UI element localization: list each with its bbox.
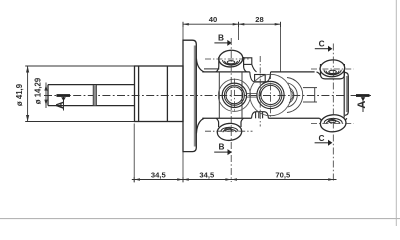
- right end boss: [344, 71, 348, 118]
- port B top: mouth ellipse: [218, 49, 243, 67]
- neck curve top (flange to body): [196, 59, 204, 72]
- svg-text:B: B: [218, 32, 224, 42]
- port C bottom: inner arcs: [324, 118, 342, 123]
- port B boss column through body: [219, 72, 242, 118]
- port B bottom: collar: [216, 118, 243, 127]
- port B bottom: inner arcs: [221, 127, 238, 132]
- top plug boss: [250, 72, 271, 82]
- top ports horizontal centerline B: [205, 58, 250, 60]
- port B top: inner arcs: [223, 60, 240, 65]
- svg-text:B: B: [219, 141, 225, 151]
- svg-text:34,5: 34,5: [199, 170, 215, 179]
- port B top: collar: [216, 57, 246, 72]
- barrel (cylinder body): [135, 66, 184, 122]
- bottom plug boss: [252, 112, 269, 119]
- svg-text:70,5: 70,5: [275, 170, 291, 179]
- label B bottom: [214, 141, 232, 155]
- bore end dome arcs: [287, 78, 303, 113]
- port B vertical centerline: [230, 38, 232, 182]
- reservoir deck step: [244, 58, 257, 72]
- top dimension line: [183, 22, 281, 27]
- port C bottom: collar: [319, 118, 347, 121]
- body top edge: [202, 71, 314, 73]
- diameter 41,9 dimension: [25, 66, 134, 122]
- left bore circles: [218, 79, 250, 111]
- mounting flange: [183, 40, 196, 151]
- bottom dimension line: [132, 177, 337, 182]
- svg-text:ø 41,9: ø 41,9: [15, 83, 24, 106]
- main horizontal centerline: [44, 95, 371, 97]
- right bore vertical centerline: [270, 73, 272, 118]
- port B bottom: mouth ellipse: [217, 123, 243, 142]
- top ports horizontal centerline C: [311, 68, 354, 70]
- section marker A right: [356, 96, 370, 113]
- label C top: [315, 39, 333, 52]
- right bore circles: [250, 74, 291, 115]
- port C top: inner arcs: [324, 70, 341, 75]
- label C bottom: [315, 133, 333, 146]
- passage between bores: [247, 93, 257, 97]
- svg-text:C: C: [319, 133, 325, 143]
- port C vertical centerline: [332, 44, 334, 183]
- section marker A left: [54, 96, 70, 111]
- plug vertical centerline: [259, 56, 261, 127]
- port C bottom: mouth ellipse: [320, 114, 347, 133]
- port C top: mouth ellipse: [320, 59, 346, 77]
- bottom page border: [0, 218, 400, 220]
- svg-text:ø 14,29: ø 14,29: [34, 77, 43, 104]
- bottom ports horizontal centerline B: [205, 130, 253, 132]
- pushrod outline: [48, 85, 135, 106]
- svg-text:A: A: [54, 101, 66, 109]
- neck curve bottom (flange to body): [196, 118, 204, 133]
- right page border: [395, 0, 397, 226]
- svg-text:34,5: 34,5: [151, 170, 167, 179]
- outlet neck lines: [303, 88, 317, 102]
- port C top: collar: [317, 64, 345, 79]
- left bore vertical centerline: [233, 79, 235, 113]
- bottom ports horizontal centerline C: [311, 122, 354, 124]
- body bottom edge: [202, 117, 319, 119]
- rod joint band: [93, 85, 96, 105]
- diameter 14,29 dimension: [44, 83, 47, 109]
- label B top: [214, 32, 231, 46]
- svg-text:40: 40: [209, 15, 217, 24]
- bottom dim extension lines: [134, 124, 183, 183]
- svg-text:A: A: [356, 101, 368, 109]
- body top step line: [204, 68, 219, 70]
- svg-text:C: C: [319, 39, 325, 49]
- svg-text:28: 28: [255, 15, 263, 24]
- top dim extension lines: [183, 22, 281, 72]
